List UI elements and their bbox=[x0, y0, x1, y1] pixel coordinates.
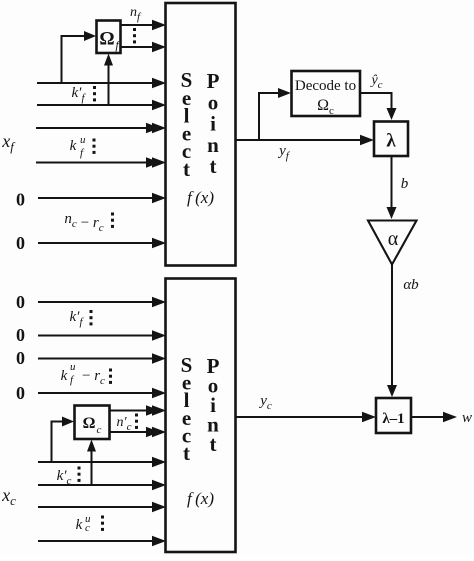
wire arrow from k'_f second line up into OMf bottom bbox=[104, 54, 113, 106]
svg-text:0: 0 bbox=[16, 233, 25, 253]
wire input k^u_c line 1 to U2 bbox=[38, 502, 166, 512]
label w output bbox=[462, 410, 472, 426]
block OMf Omega_f bbox=[97, 21, 121, 54]
dots k^u_f - r_c bbox=[109, 369, 112, 384]
label 0 (lower 1) bbox=[16, 292, 25, 312]
svg-text:xf: xf bbox=[1, 131, 16, 154]
wire input k^u_f line 1 to U1 (double arrow) bbox=[36, 123, 166, 133]
label 0 (lower 3) bbox=[16, 348, 25, 368]
wire feedback from k'_f line up into OMf left bbox=[62, 31, 97, 83]
svg-text:c: c bbox=[85, 522, 90, 534]
label k'_c bbox=[57, 468, 72, 487]
label n'_c bbox=[117, 415, 132, 433]
dots k'_f (upper) bbox=[93, 86, 96, 101]
svg-text:− rc: − rc bbox=[81, 368, 105, 387]
svg-text:0: 0 bbox=[16, 190, 25, 210]
svg-text:k′f: k′f bbox=[69, 309, 84, 328]
svg-text:λ–1: λ–1 bbox=[382, 411, 404, 427]
svg-text:k: k bbox=[70, 138, 77, 154]
wire input k^u_c line 2 to U2 bbox=[38, 536, 166, 546]
wire input zero line 1 to U2 bbox=[38, 297, 166, 307]
block U2 Select Point f(x) (lower) bbox=[166, 279, 236, 553]
svg-text:Ω: Ω bbox=[99, 29, 114, 50]
block U1 Select Point f(x) (upper) bbox=[166, 3, 236, 266]
svg-text:b: b bbox=[401, 176, 409, 192]
wire Decode output to lambda block top bbox=[360, 93, 397, 120]
wire input k^u_f line 2 to U1 (double arrow) bbox=[36, 157, 166, 167]
svg-text:αb: αb bbox=[403, 277, 419, 293]
wire input k'_f line 2 to U1 bbox=[37, 100, 166, 110]
svg-text:nf: nf bbox=[130, 5, 142, 23]
wire input zero line 2 to U2 bbox=[38, 330, 166, 340]
dots n_c - r_c bbox=[111, 213, 114, 228]
label k^u_f (upper) bbox=[70, 134, 86, 159]
wire OMf output 2 to U1 bbox=[120, 42, 167, 52]
wire OMc output 1 to U2 (double arrow) bbox=[110, 405, 167, 415]
svg-text:f: f bbox=[70, 374, 75, 386]
svg-text:n′c: n′c bbox=[117, 415, 132, 433]
svg-text:0: 0 bbox=[16, 292, 25, 312]
label 0 (upper first) bbox=[16, 190, 25, 210]
wire feedback from k'_c line up into OMc left bbox=[52, 417, 75, 463]
block lambda bbox=[374, 122, 408, 157]
label k^u_f - r_c bbox=[61, 361, 105, 387]
svg-text:f (x): f (x) bbox=[187, 188, 214, 207]
svg-text:0: 0 bbox=[16, 325, 25, 345]
svg-text:k: k bbox=[61, 368, 68, 384]
wire y_f from U1 to lambda block bbox=[236, 135, 375, 145]
block OMc Omega_c bbox=[75, 406, 110, 440]
svg-text:c: c bbox=[97, 424, 102, 436]
wire alpha-b from triangle to lambda-1 block bbox=[387, 265, 397, 398]
wire input k'_c line 1 to U2 bbox=[38, 457, 166, 467]
label y_c bbox=[258, 393, 272, 412]
label 0 (lower 4) bbox=[16, 383, 25, 403]
label n_f bbox=[130, 5, 142, 23]
dots k^u_c bbox=[101, 516, 104, 531]
svg-text:f: f bbox=[80, 147, 85, 159]
label b bbox=[401, 176, 409, 192]
svg-text:f (x): f (x) bbox=[187, 489, 214, 508]
amplifier alpha triangle bbox=[368, 221, 417, 265]
label x_f input bbox=[1, 131, 16, 154]
wire input zero line 2 to U1 bbox=[38, 238, 166, 248]
dots between OMf outputs bbox=[133, 28, 136, 43]
svg-text:t: t bbox=[210, 432, 217, 456]
svg-text:α: α bbox=[388, 228, 399, 250]
dots k'_c bbox=[78, 467, 81, 482]
wire OMf output 1 to U1 bbox=[120, 20, 167, 30]
label x_c input bbox=[1, 485, 16, 508]
block Decode to Omega_c bbox=[292, 71, 361, 117]
svg-text:Ω: Ω bbox=[83, 415, 96, 432]
wire branch from y_f up to Decode block bbox=[259, 88, 291, 140]
svg-text:yc: yc bbox=[258, 393, 272, 412]
dots k'_f (lower) bbox=[90, 310, 93, 325]
svg-text:w: w bbox=[462, 410, 472, 426]
label y_f bbox=[277, 143, 291, 162]
svg-text:t: t bbox=[183, 441, 190, 465]
label k'_f (upper) bbox=[71, 85, 86, 104]
svg-text:u: u bbox=[80, 134, 86, 146]
wire b from lambda to alpha triangle bbox=[387, 156, 397, 219]
svg-text:ŷc: ŷc bbox=[369, 73, 382, 91]
svg-text:Decode to: Decode to bbox=[295, 78, 356, 94]
wire arrow from k'_c second line up into OMc bottom bbox=[87, 440, 96, 486]
wire input zero line 1 to U1 bbox=[38, 193, 166, 203]
svg-text:0: 0 bbox=[16, 383, 25, 403]
svg-text:λ: λ bbox=[386, 131, 396, 152]
label y-hat_c bbox=[369, 73, 382, 91]
label n_c - r_c bbox=[64, 211, 103, 234]
svg-text:yf: yf bbox=[277, 143, 291, 162]
wire input k'_f line 1 to U1 bbox=[37, 78, 166, 88]
label 0 (upper second) bbox=[16, 233, 25, 253]
block lambda-1 bbox=[376, 398, 411, 433]
wire OMc output 2 to U2 (double arrow) bbox=[110, 427, 167, 437]
dots k^u_f (upper) bbox=[93, 139, 96, 154]
svg-text:t: t bbox=[183, 157, 190, 181]
svg-text:k′f: k′f bbox=[71, 85, 86, 104]
label alpha-b bbox=[403, 277, 419, 293]
wire input zero line 3 to U2 bbox=[38, 353, 166, 363]
wire output w from lambda-1 bbox=[411, 412, 457, 422]
wire y_c from U2 to lambda-1 bbox=[236, 412, 377, 422]
dots n'_c bbox=[135, 414, 138, 429]
svg-text:u: u bbox=[70, 361, 76, 373]
label 0 (lower 2) bbox=[16, 325, 25, 345]
wire input k'_c line 2 to U2 bbox=[38, 480, 166, 490]
svg-text:nc − rc: nc − rc bbox=[64, 211, 103, 234]
svg-text:k: k bbox=[76, 517, 83, 533]
label k'_f (lower) bbox=[69, 309, 84, 328]
svg-text:Ωc: Ωc bbox=[317, 97, 334, 117]
wire input zero line 4 to U2 bbox=[38, 388, 166, 398]
svg-text:t: t bbox=[210, 154, 217, 178]
svg-text:0: 0 bbox=[16, 348, 25, 368]
svg-text:xc: xc bbox=[1, 485, 16, 508]
label k^u_c bbox=[76, 513, 91, 534]
